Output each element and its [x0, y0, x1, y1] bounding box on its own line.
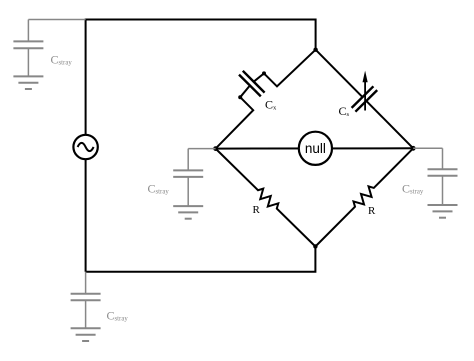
null detector meter	[299, 132, 332, 165]
plates	[13, 40, 43, 42]
svg-text:Cstray: Cstray	[402, 182, 424, 196]
wire Cx to top node with jog	[264, 50, 316, 87]
wire to right node	[413, 147, 442, 149]
svg-text:R: R	[368, 205, 376, 217]
svg-text:null: null	[305, 141, 326, 156]
wire stub	[27, 20, 29, 42]
wire stub to ground	[442, 176, 444, 205]
plates	[71, 293, 101, 295]
svg-text:Cstray: Cstray	[107, 309, 129, 323]
plates	[173, 169, 203, 171]
capacitor C_stray bottom-left (gray)	[71, 272, 101, 341]
ground	[13, 75, 43, 77]
AC source V1	[73, 135, 97, 159]
svg-text:R: R	[253, 204, 261, 216]
wire Cs to right node	[366, 101, 413, 148]
wire stub to ground	[187, 177, 189, 206]
ground	[71, 327, 101, 329]
capacitor Cs variable arrow	[363, 71, 368, 111]
wire Cx lead upper	[254, 73, 264, 81]
wire left vertical below source	[85, 159, 87, 271]
wire to top rail	[28, 19, 85, 21]
wire arm left node to Cx with jog	[216, 97, 254, 148]
capacitor Cx plates	[239, 71, 265, 97]
wire stub	[187, 149, 189, 171]
wire stub to ground	[27, 48, 29, 76]
capacitor C_stray mid-left at left node (gray)	[173, 149, 215, 219]
capacitor C_stray right (gray)	[413, 148, 457, 217]
resistor R2 right bridge arm	[315, 148, 413, 246]
wire Cx lead lower	[240, 86, 250, 98]
wire top node to Cs	[316, 50, 363, 97]
node top	[313, 48, 317, 52]
node bottom	[313, 244, 317, 248]
wire bottom rail with stub to bottom node	[86, 247, 316, 272]
wire null detector horizontal	[216, 147, 414, 149]
node left	[213, 146, 218, 151]
wire stub to ground	[85, 300, 87, 328]
capacitor C_stray top-left (gray)	[13, 20, 85, 90]
node Cx lower lead dot	[238, 95, 242, 99]
capacitor Cs plates	[352, 86, 378, 111]
plates	[428, 168, 458, 170]
svg-text:Cstray: Cstray	[51, 53, 73, 67]
ground	[173, 205, 203, 207]
wire to left node	[188, 148, 215, 150]
node right	[411, 146, 416, 151]
wire stub from bottom rail	[85, 272, 87, 294]
wire top rail with stub to top node	[86, 20, 316, 135]
svg-text:Cs: Cs	[339, 104, 350, 118]
svg-text:Cstray: Cstray	[148, 182, 170, 196]
ground	[428, 204, 458, 206]
wire stub	[442, 148, 444, 169]
node Cx upper lead dot	[262, 71, 266, 75]
resistor R1 left bridge arm	[216, 149, 316, 247]
svg-text:Cx: Cx	[265, 98, 277, 112]
